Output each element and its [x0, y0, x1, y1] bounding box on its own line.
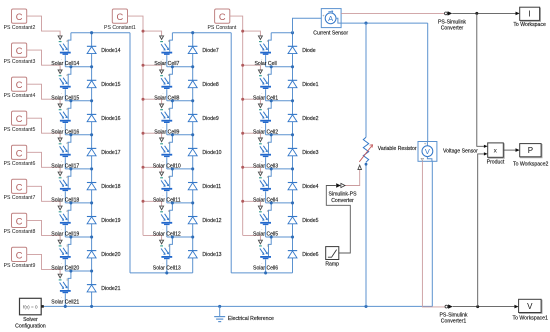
wire column3 top to current sensor: [293, 18, 322, 32]
node junction: [291, 65, 294, 68]
svg-text:Solar Cell20: Solar Cell20: [51, 266, 79, 272]
svg-text:a: a: [267, 73, 269, 77]
svg-text:Solar Cell14: Solar Cell14: [51, 61, 79, 67]
svg-text:Variable Resistor: Variable Resistor: [378, 146, 417, 152]
wire bypass diode chain: [292, 33, 294, 273]
svg-text:Diode14: Diode14: [101, 48, 120, 54]
svg-text:a: a: [66, 39, 68, 43]
junction on irradiance bus: [142, 200, 145, 203]
wire node rail: [65, 270, 91, 272]
svg-text:C: C: [16, 250, 23, 260]
node junction: [191, 133, 194, 136]
node junction: [291, 99, 294, 102]
svg-text:C: C: [16, 216, 23, 226]
node junction: [291, 31, 294, 34]
svg-text:Diode9: Diode9: [202, 116, 218, 122]
svg-text:-: -: [61, 261, 62, 265]
svg-text:Diode: Diode: [302, 48, 316, 54]
wire node rail: [65, 66, 91, 68]
wire bus stub to Solar Cell2 port: [243, 99, 261, 104]
svg-text:Diode11: Diode11: [202, 184, 221, 190]
wire bottom node rail: [231, 272, 292, 274]
wire PS Constant2 to Solar Cell14 Ir port: [27, 16, 60, 36]
PS constant block PS Constant3: [4, 43, 36, 65]
svg-text:Diode2: Diode2: [302, 116, 318, 122]
wire node rail: [167, 66, 193, 68]
node junction: [171, 167, 174, 170]
wire node rail: [266, 202, 293, 204]
diode Diode10: [188, 148, 222, 156]
solar cell Solar Cell12: [153, 203, 181, 238]
solar cell Solar Cell1: [253, 67, 278, 102]
wire PS signal current sensor to converter: [341, 12, 444, 14]
svg-text:-: -: [162, 159, 163, 163]
wire main bottom rail: [44, 305, 433, 307]
svg-text:C: C: [219, 12, 226, 22]
svg-text:C: C: [16, 80, 23, 90]
wire link column1 top to column2 bottom: [129, 33, 131, 273]
svg-text:Solar Cell8: Solar Cell8: [154, 95, 179, 101]
svg-text:a: a: [66, 141, 68, 145]
ramp source block: [325, 247, 339, 268]
wire PS Constant irradiance bus: [230, 16, 243, 235]
node junction: [90, 133, 93, 136]
junction on irradiance bus: [241, 166, 244, 169]
wire node rail: [167, 100, 193, 102]
node junction ground: [218, 305, 221, 308]
svg-text:Solar Cell13: Solar Cell13: [153, 266, 181, 272]
wire bypass diode chain: [91, 33, 93, 307]
node junction: [270, 167, 273, 170]
PS constant block PS Constant8: [4, 213, 36, 235]
node junction: [90, 65, 93, 68]
signal junction: [475, 12, 478, 15]
diode Diode3: [288, 148, 319, 156]
wire bus stub to Solar Cell6 port: [243, 235, 261, 240]
PS-Simulink converter: [438, 11, 466, 31]
solar cell Solar Cell7: [154, 33, 179, 67]
svg-text:PS Constant3: PS Constant3: [4, 59, 36, 65]
svg-text:a: a: [66, 277, 68, 281]
svg-text:-: -: [261, 261, 262, 265]
node junction: [69, 235, 72, 238]
node junction: [264, 271, 267, 274]
solar cell Solar Cell4: [253, 169, 278, 204]
node junction: [291, 235, 294, 238]
wire bus stub to Solar Cell1 port: [243, 65, 261, 70]
svg-text:Solar Cell11: Solar Cell11: [153, 197, 181, 203]
wire bus stub to Solar Cell7 port: [143, 31, 162, 36]
node junction: [365, 163, 368, 166]
wire current sensor to node rail: [341, 22, 428, 24]
wire bus stub to Solar Cell10 port: [143, 133, 162, 138]
Simulink-PS converter: [329, 183, 358, 204]
svg-text:-: -: [261, 227, 262, 231]
svg-text:Solar Cell5: Solar Cell5: [253, 232, 278, 238]
svg-text:C: C: [16, 114, 23, 124]
node junction: [191, 167, 194, 170]
svg-text:I: I: [528, 10, 530, 19]
svg-text:Diode20: Diode20: [101, 252, 120, 258]
node junction: [90, 269, 93, 272]
svg-text:a: a: [168, 39, 170, 43]
node junction: [364, 22, 367, 25]
junction on irradiance bus: [241, 98, 244, 101]
svg-text:PS Constant2: PS Constant2: [4, 25, 36, 31]
junction on irradiance bus: [241, 64, 244, 67]
wire node rail: [266, 66, 293, 68]
svg-text:-: -: [261, 159, 262, 163]
wire node rail: [167, 134, 193, 136]
svg-text:a: a: [168, 107, 170, 111]
svg-text:Voltage Sensor: Voltage Sensor: [443, 148, 478, 154]
node junction: [291, 133, 294, 136]
svg-text:Solar Cell18: Solar Cell18: [51, 197, 79, 203]
wire top node rail column1: [71, 32, 130, 34]
wire bus stub to Solar Cell11 port: [143, 167, 162, 172]
svg-text:Simulink-PS: Simulink-PS: [329, 192, 358, 198]
wire node rail: [65, 134, 91, 136]
node junction: [270, 235, 273, 238]
node junction: [69, 99, 72, 102]
wire top node rail: [271, 32, 292, 34]
svg-text:a: a: [168, 175, 170, 179]
svg-text:Solar Cell9: Solar Cell9: [154, 129, 179, 135]
svg-text:a: a: [168, 141, 170, 145]
node junction: [191, 201, 194, 204]
wire PS Constant1 irradiance bus: [128, 16, 144, 235]
svg-text:Solar Cell10: Solar Cell10: [153, 163, 181, 169]
PS constant block PS Constant7: [4, 179, 36, 201]
svg-text:a: a: [267, 243, 269, 247]
svg-text:PS Constant: PS Constant: [207, 25, 236, 31]
wire node rail: [65, 168, 91, 170]
solar cell Solar Cell13: [153, 237, 181, 273]
solar cell Solar Cell15: [51, 67, 79, 102]
solar cell Solar Cell9: [154, 101, 179, 136]
wire PS Constant8 to Solar Cell20 Ir port: [27, 220, 60, 240]
svg-text:PS-Simulink: PS-Simulink: [438, 19, 466, 25]
junction on irradiance bus: [241, 30, 244, 33]
node junction resistor: [364, 305, 367, 308]
svg-text:Diode5: Diode5: [302, 218, 318, 224]
svg-text:-: -: [162, 261, 163, 265]
wire product to To Workspace2: [503, 149, 516, 151]
wire PS Constant3 to Solar Cell15 Ir port: [27, 50, 60, 70]
wire bypass diode chain: [192, 33, 194, 273]
svg-text:a: a: [66, 243, 68, 247]
node junction: [171, 65, 174, 68]
svg-text:Solar Cell4: Solar Cell4: [253, 197, 278, 203]
node junction: [171, 133, 174, 136]
svg-text:Configuration: Configuration: [15, 323, 46, 329]
node junction: [270, 133, 273, 136]
to workspace block I: [513, 7, 546, 28]
svg-text:Solver: Solver: [23, 317, 38, 323]
svg-text:P: P: [528, 146, 533, 155]
solar cell Solar Cell: [254, 33, 276, 67]
svg-text:PS Constant6: PS Constant6: [4, 161, 36, 167]
diode Diode1: [288, 80, 319, 88]
wire bus stub to Solar Cell3 port: [243, 133, 261, 138]
svg-text:Diode8: Diode8: [202, 82, 218, 88]
svg-text:C: C: [117, 12, 124, 22]
junction on irradiance bus: [142, 64, 145, 67]
svg-text:Solar Cell2: Solar Cell2: [253, 129, 278, 135]
svg-text:Solar Cell21: Solar Cell21: [51, 300, 79, 306]
svg-text:a: a: [267, 107, 269, 111]
wire node rail: [65, 202, 91, 204]
wire PS Constant7 to Solar Cell19 Ir port: [27, 186, 60, 206]
svg-text:PS Constant5: PS Constant5: [4, 127, 36, 133]
svg-text:Solar Cell15: Solar Cell15: [51, 95, 79, 101]
svg-text:a: a: [267, 175, 269, 179]
diode Diode6: [288, 251, 319, 259]
svg-text:Converter: Converter: [331, 198, 354, 204]
svg-text:-: -: [61, 159, 62, 163]
svg-text:Current Sensor: Current Sensor: [313, 30, 348, 36]
PS constant block PS Constant1: [104, 9, 136, 31]
wire bus stub to Solar Cell8 port: [143, 65, 162, 70]
solar cell Solar Cell5: [253, 203, 278, 238]
PS constant block PS Constant4: [4, 77, 36, 99]
svg-text:Solar Cell19: Solar Cell19: [51, 232, 79, 238]
node junction: [191, 65, 194, 68]
svg-text:To Workspace: To Workspace: [513, 22, 546, 28]
svg-text:a: a: [66, 73, 68, 77]
product block: [487, 143, 505, 166]
signal junction: [476, 305, 479, 308]
svg-text:C: C: [16, 182, 23, 192]
svg-text:Electrical Reference: Electrical Reference: [228, 316, 274, 322]
wire PS Constant6 to Solar Cell18 Ir port: [27, 152, 60, 172]
diode Diode9: [188, 114, 219, 122]
node junction: [291, 201, 294, 204]
wire bottom node rail: [130, 272, 193, 274]
svg-text:a: a: [66, 175, 68, 179]
to workspace block P: [513, 144, 548, 168]
diode Diode15: [87, 80, 121, 88]
svg-text:-: -: [61, 227, 62, 231]
svg-text:Solar Cell3: Solar Cell3: [253, 163, 278, 169]
svg-text:PS Constant7: PS Constant7: [4, 195, 36, 201]
node junction: [90, 99, 93, 102]
svg-text:Diode15: Diode15: [101, 82, 120, 88]
wire PS signal voltage sensor to converter1: [422, 161, 445, 307]
solar cell Solar Cell20: [51, 237, 79, 272]
diode Diode16: [87, 114, 121, 122]
svg-text:a: a: [168, 209, 170, 213]
diode Diode18: [87, 183, 121, 191]
current sensor U_I: [313, 9, 348, 37]
variable resistor R1: [358, 137, 417, 169]
wire node rail: [65, 100, 91, 102]
node junction: [270, 99, 273, 102]
node junction: [69, 133, 72, 136]
solar cell Solar Cell21: [51, 271, 79, 306]
diode Diode: [288, 46, 316, 54]
junction on irradiance bus: [142, 30, 145, 33]
diode Diode4: [288, 183, 319, 191]
PS constant block PS Constant6: [4, 145, 36, 167]
svg-text:C: C: [16, 148, 23, 158]
junction on irradiance bus: [142, 132, 145, 135]
node junction: [191, 31, 194, 34]
ground Electrical Reference: [214, 306, 274, 321]
PS constant block PS Constant5: [4, 111, 36, 133]
voltage sensor U_V: [418, 141, 478, 161]
svg-text:Diode19: Diode19: [101, 218, 120, 224]
solar cell Solar Cell6: [253, 237, 278, 273]
svg-text:V: V: [527, 302, 533, 311]
svg-text:Diode17: Diode17: [101, 150, 120, 156]
solar cell Solar Cell8: [154, 67, 179, 102]
node junction: [171, 99, 174, 102]
svg-text:Solar Cell6: Solar Cell6: [253, 266, 278, 272]
svg-text:Diode21: Diode21: [101, 286, 120, 292]
node junction: [270, 201, 273, 204]
solar cell Solar Cell16: [51, 101, 79, 136]
solar cell Solar Cell18: [51, 169, 79, 204]
wire voltage signal to product: [478, 154, 484, 307]
wire node rail: [65, 236, 91, 238]
svg-text:Solar Cell16: Solar Cell16: [51, 129, 79, 135]
wire bus stub to Solar Cell5 port: [243, 201, 261, 206]
node junction: [69, 65, 72, 68]
svg-text:a: a: [66, 107, 68, 111]
wire node to voltage sensor: [427, 23, 429, 141]
junction on irradiance bus: [241, 132, 244, 135]
svg-text:Diode12: Diode12: [202, 218, 221, 224]
wire bus stub to Solar Cell9 port: [143, 99, 162, 104]
svg-text:Diode10: Diode10: [202, 150, 221, 156]
diode Diode7: [188, 46, 219, 54]
svg-text:Product: Product: [487, 160, 505, 166]
node junction: [90, 201, 93, 204]
diode Diode2: [288, 114, 319, 122]
diode Diode13: [188, 251, 222, 259]
wire node rail: [167, 202, 193, 204]
node junction: [69, 167, 72, 170]
wire node rail: [266, 236, 293, 238]
svg-text:a: a: [267, 141, 269, 145]
wire node rail: [266, 168, 293, 170]
wire converter1 to To Workspace1: [453, 306, 515, 308]
svg-text:a: a: [168, 243, 170, 247]
PS constant block PS Constant: [207, 9, 236, 31]
diode Diode8: [188, 80, 219, 88]
solar cell Solar Cell11: [153, 169, 181, 204]
wire bus stub to Solar Cell12 port: [143, 201, 162, 206]
svg-text:Diode13: Diode13: [202, 252, 221, 258]
node junction: [90, 167, 93, 170]
wire PS Constant9 to Solar Cell21 Ir port: [27, 254, 60, 274]
node junction: [90, 235, 93, 238]
node junction: [69, 269, 72, 272]
node junction: [69, 201, 72, 204]
svg-text:Diode16: Diode16: [101, 116, 120, 122]
solar cell Solar Cell3: [253, 135, 278, 170]
svg-text:PS-Simulink: PS-Simulink: [440, 312, 468, 318]
solar cell Solar Cell17: [51, 135, 79, 170]
wire bus stub to Solar Cell4 port: [243, 167, 261, 172]
svg-text:Solar Cell1: Solar Cell1: [253, 95, 278, 101]
svg-text:Solar Cell17: Solar Cell17: [51, 163, 79, 169]
svg-text:Diode3: Diode3: [302, 150, 318, 156]
svg-text:PS Constant1: PS Constant1: [104, 25, 136, 31]
svg-text:f(x) = 0: f(x) = 0: [23, 304, 38, 309]
node junction: [90, 31, 93, 34]
wire converter to To Workspace: [452, 12, 515, 14]
diode Diode20: [87, 251, 121, 259]
svg-text:Ramp: Ramp: [325, 262, 339, 268]
svg-text:Solar Cell: Solar Cell: [254, 61, 276, 67]
PS constant block PS Constant2: [4, 9, 36, 31]
wire bus stub to Solar Cell13 port: [143, 235, 162, 240]
junction on irradiance bus: [142, 98, 145, 101]
wire voltage sensor negative to rail: [431, 161, 433, 306]
solver configuration block: [15, 298, 46, 329]
svg-text:Diode6: Diode6: [302, 252, 318, 258]
svg-text:Diode7: Diode7: [202, 48, 218, 54]
node junction: [291, 167, 294, 170]
wire node rail: [266, 134, 293, 136]
diode Diode21: [87, 285, 121, 293]
diode Diode17: [87, 148, 121, 156]
solar cell Solar Cell2: [253, 101, 278, 136]
svg-text:a: a: [267, 39, 269, 43]
PS-Simulink converter1: [440, 304, 468, 324]
wire resistor to main rail: [365, 163, 367, 307]
wire PS Constant4 to Solar Cell16 Ir port: [27, 84, 60, 104]
svg-text:PS Constant4: PS Constant4: [4, 93, 36, 99]
svg-text:-: -: [162, 227, 163, 231]
svg-text:Converter1: Converter1: [441, 319, 467, 325]
svg-text:Diode4: Diode4: [302, 184, 318, 190]
wire node rail: [167, 236, 193, 238]
junction on irradiance bus: [241, 200, 244, 203]
diode Diode19: [87, 217, 121, 225]
svg-text:A: A: [328, 14, 333, 23]
node junction: [171, 201, 174, 204]
svg-text:Solar Cell7: Solar Cell7: [154, 61, 179, 67]
svg-text:Diode1: Diode1: [302, 82, 318, 88]
PS constant block PS Constant9: [4, 247, 36, 269]
node junction diode21: [90, 305, 93, 308]
node junction: [270, 65, 273, 68]
svg-text:PS Constant9: PS Constant9: [4, 263, 36, 269]
solar cell Solar Cell19: [51, 203, 79, 238]
wire bus stub to Solar Cell port: [243, 31, 261, 36]
wire node rail: [167, 168, 193, 170]
wire current signal to product: [477, 13, 484, 146]
wire PS Constant5 to Solar Cell17 Ir port: [27, 118, 60, 138]
svg-text:PS Constant8: PS Constant8: [4, 229, 36, 235]
diode Diode11: [188, 183, 221, 191]
wire PS control of variable resistor: [345, 170, 360, 186]
svg-text:C: C: [16, 12, 23, 22]
wire node rail: [266, 100, 293, 102]
svg-text:Solar Cell12: Solar Cell12: [153, 232, 181, 238]
wire ramp to Simulink-PS converter: [326, 186, 350, 254]
svg-text:To Workspace2: To Workspace2: [513, 161, 548, 167]
diode Diode12: [188, 217, 222, 225]
svg-text:a: a: [66, 209, 68, 213]
svg-text:Diode18: Diode18: [101, 184, 120, 190]
solar cell Solar Cell10: [153, 135, 181, 170]
wire link column2 top to column3 bottom: [230, 33, 232, 273]
node junction cell21: [64, 305, 67, 308]
